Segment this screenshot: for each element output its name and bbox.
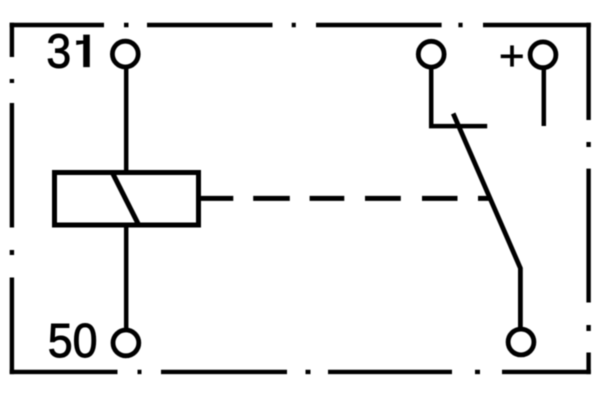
switch output terminal (bottom right) <box>508 329 534 355</box>
terminal 31 label <box>46 24 89 78</box>
dashed actuation link: coil to switch arm <box>253 196 490 201</box>
plus (+) label <box>501 45 523 66</box>
terminal 31 <box>112 41 138 67</box>
wire: plus terminal stub down <box>542 68 547 126</box>
wire: terminal 31 down to coil <box>124 67 129 172</box>
coil diagonal stroke <box>112 172 139 226</box>
terminal 50 <box>113 330 139 356</box>
plus battery terminal <box>530 42 556 68</box>
svg-text:3: 3 <box>46 24 71 78</box>
switch input terminal (top center) <box>418 41 444 67</box>
wire: coil down to terminal 50 <box>124 226 129 331</box>
wire: switch terminal down and fixed contact (L-shape) <box>431 67 487 126</box>
switch movable arm <box>453 114 520 330</box>
relay coil K1 (rectangle) <box>55 173 199 226</box>
wire: coil output stub (solid) <box>201 196 233 201</box>
svg-text:50: 50 <box>48 314 98 368</box>
